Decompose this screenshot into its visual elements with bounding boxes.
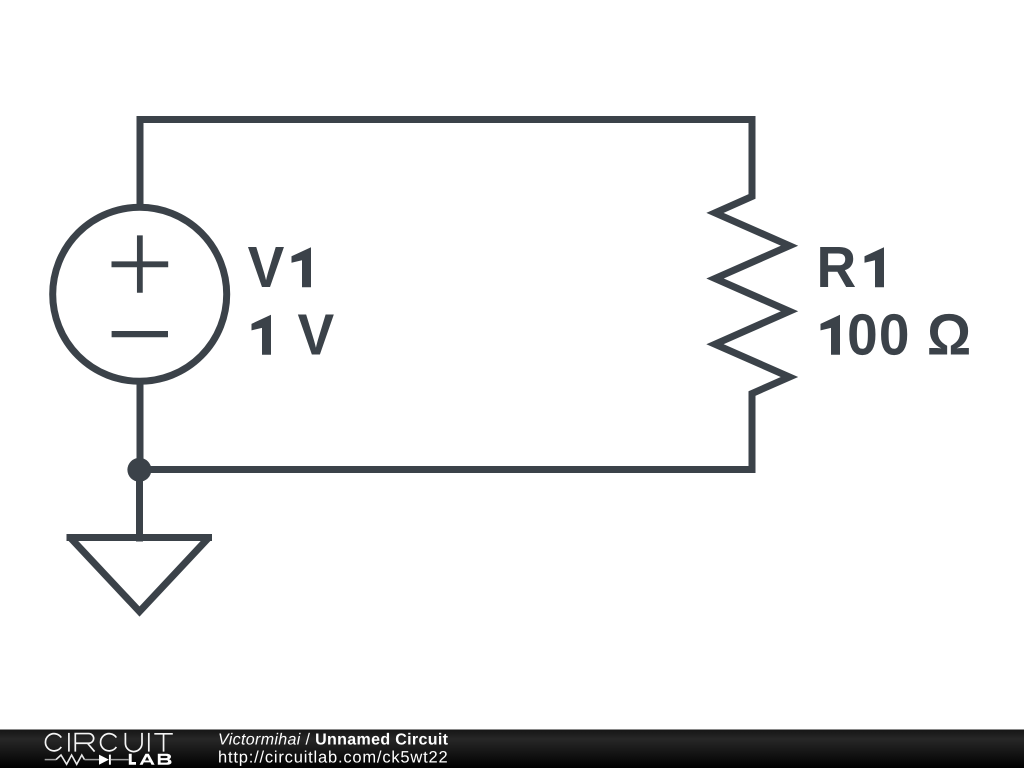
svg-text:V: V: [248, 234, 285, 300]
svg-text:R: R: [817, 234, 857, 300]
svg-text:http://circuitlab.com/ck5wt22: http://circuitlab.com/ck5wt22: [218, 749, 448, 767]
svg-text:V: V: [298, 302, 335, 368]
svg-text:Victormihai / Unnamed Circuit: Victormihai / Unnamed Circuit: [218, 731, 449, 748]
svg-text:00 Ω: 00 Ω: [847, 302, 971, 368]
